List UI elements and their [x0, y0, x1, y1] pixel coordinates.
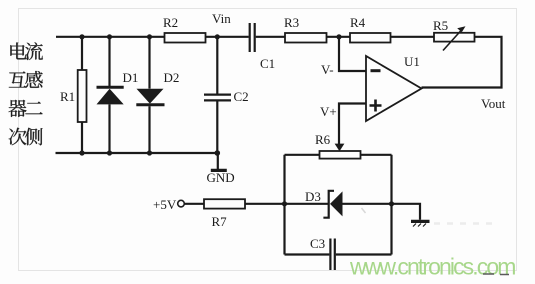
svg-text:R1: R1 [60, 89, 75, 104]
wire loop left vertical [283, 155, 285, 255]
bottom wire [56, 152, 218, 154]
svg-text:Vout: Vout [481, 96, 506, 111]
wire to ground 2 [392, 204, 421, 220]
svg-text:C3: C3 [310, 236, 325, 251]
svg-text:U1: U1 [404, 54, 420, 69]
wire R6 left [285, 154, 320, 156]
wire R7 to loop [245, 203, 285, 205]
svg-text:V+: V+ [320, 104, 337, 119]
resistor R5 (variable) [433, 18, 475, 51]
diode D2 [136, 70, 179, 105]
terminal circle [178, 200, 185, 207]
node loop right [389, 201, 394, 206]
node R1 top [79, 34, 84, 39]
node R1 bottom [79, 150, 84, 155]
wire D3 left [285, 203, 329, 205]
svg-text:+5V: +5V [153, 197, 177, 212]
node GND junction [215, 150, 221, 156]
wire C3 left [285, 253, 330, 255]
wire D2 to bottom [148, 106, 150, 153]
svg-text:C2: C2 [234, 89, 249, 104]
svg-text:GND: GND [207, 170, 235, 185]
wire top to D2 [148, 37, 150, 89]
wire R3 to R4 [327, 36, 351, 38]
wire V- input [339, 37, 366, 71]
node D1 bottom [107, 150, 112, 155]
capacitor C1 [250, 23, 275, 71]
text: CT secondary label 电流互感器二次侧 [9, 42, 43, 145]
ground [207, 170, 235, 185]
resistor R4 [350, 15, 391, 43]
wire top to D1 [108, 37, 110, 86]
svg-text:R2: R2 [163, 15, 178, 30]
diode D1 [97, 70, 139, 104]
node D2 bottom [147, 150, 152, 155]
faint artifact dashes [434, 222, 492, 225]
svg-text:V-: V- [321, 62, 334, 77]
ground 2 [411, 221, 430, 226]
svg-text:D1: D1 [123, 70, 139, 85]
diode D3 (zener) [305, 189, 343, 218]
svg-text:R4: R4 [350, 15, 366, 30]
resistor R2 [163, 15, 206, 43]
wire top to R1 [81, 37, 83, 70]
svg-text:R7: R7 [212, 214, 228, 229]
capacitor C2 [204, 89, 249, 104]
wire to ground [217, 153, 219, 169]
wire R5 to feedback corner [422, 37, 502, 88]
capacitor C3 [310, 236, 335, 270]
svg-text:R6: R6 [315, 132, 331, 147]
wire terminal to R7 [184, 203, 204, 205]
wire C3 right [336, 253, 392, 255]
resistor R6 [315, 132, 361, 159]
svg-text:www.cntronics.com: www.cntronics.com [349, 254, 515, 280]
op-amp U1 [366, 54, 422, 121]
wire R2 to C1 [206, 36, 249, 38]
top wire (left segment to R2) [56, 36, 165, 38]
svg-text:C1: C1 [260, 56, 275, 71]
svg-text:D3: D3 [305, 189, 321, 204]
resistor R3 [284, 15, 327, 43]
R6 wiper arrow [335, 144, 345, 152]
svg-text:Vin: Vin [212, 11, 231, 26]
dark smudges [483, 273, 509, 276]
svg-text:R3: R3 [284, 15, 299, 30]
svg-text:D2: D2 [164, 70, 180, 85]
wire R6 right [361, 154, 392, 156]
node D1 top [107, 34, 112, 39]
wire top to C2 [216, 37, 218, 94]
node Vin [212, 11, 231, 39]
resistor R7 [204, 199, 245, 229]
wire C1 to R3 [256, 36, 285, 38]
wire loop right vertical [390, 155, 392, 255]
node V- junction [336, 34, 341, 39]
wire V+ input [339, 104, 366, 145]
svg-text:R5: R5 [433, 18, 448, 33]
wire R1 to bottom [81, 122, 83, 153]
wire D3 right [343, 203, 392, 205]
wire R4 to R5 [391, 36, 435, 38]
wire C2 to bottom [216, 102, 218, 154]
wire D1 to bottom [108, 104, 110, 153]
node D2 top [147, 34, 152, 39]
resistor R1 [60, 70, 87, 122]
node loop left [282, 201, 287, 206]
